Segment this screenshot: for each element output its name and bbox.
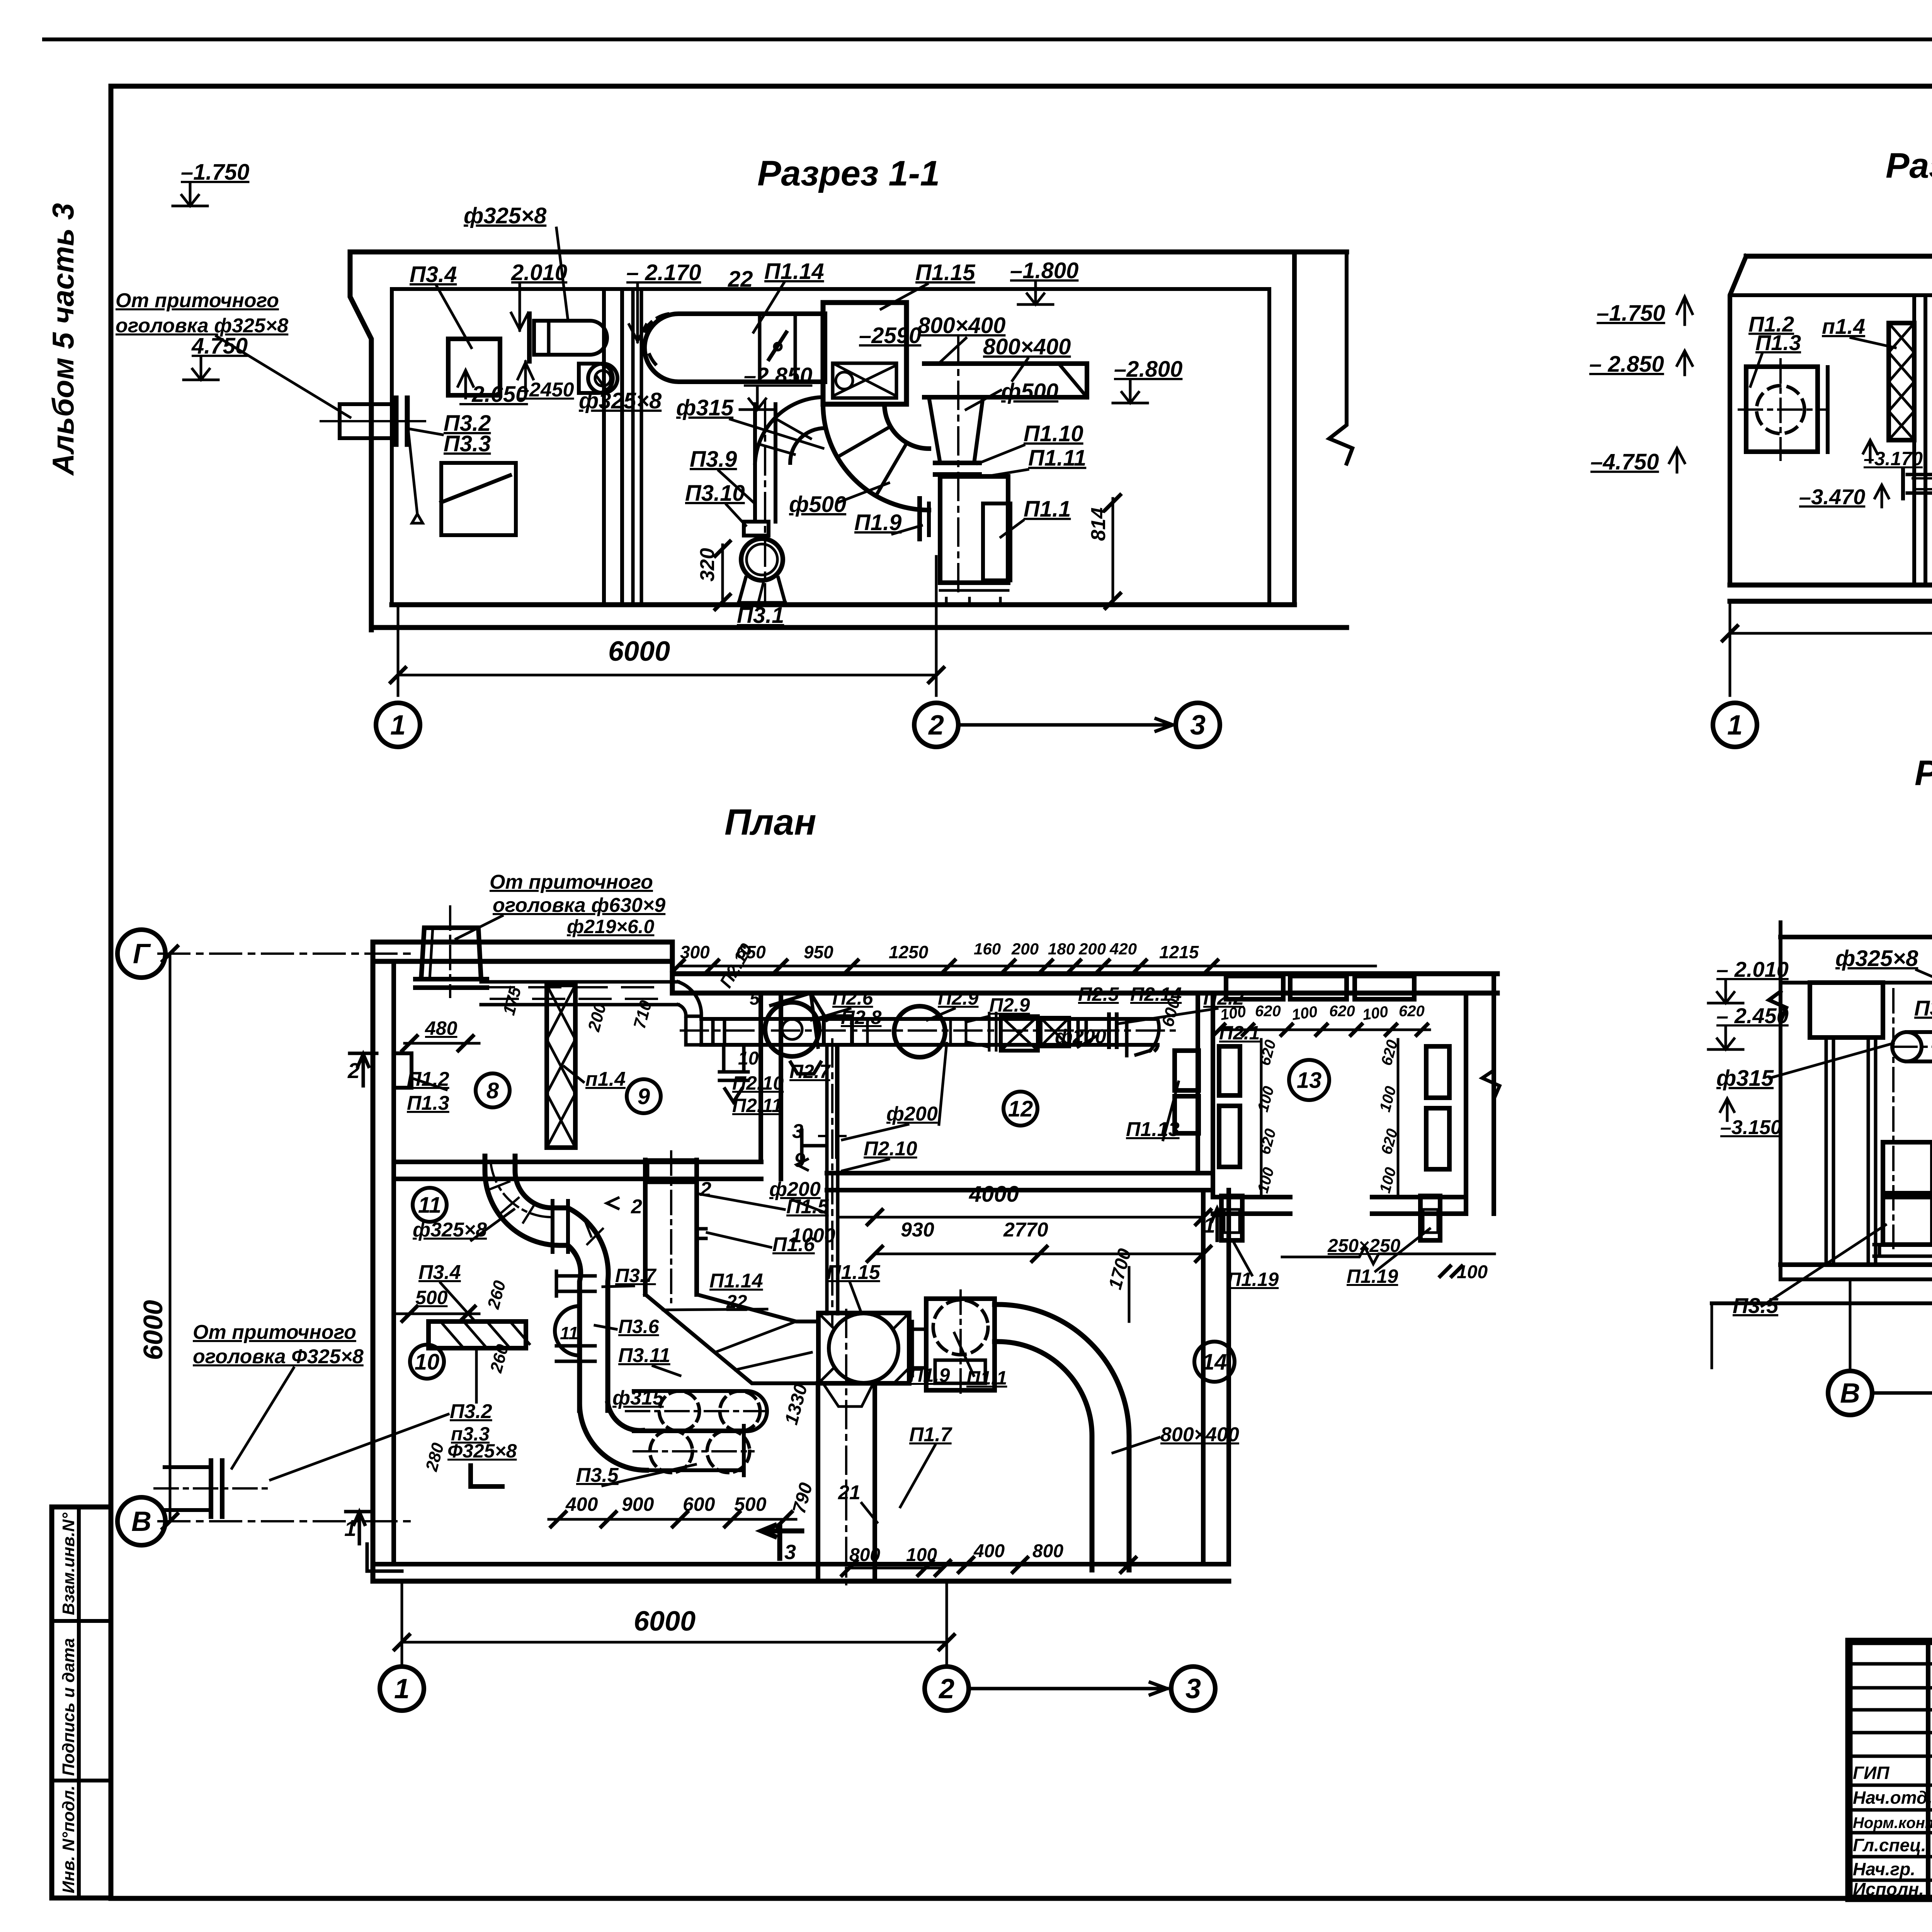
svg-text:200: 200 bbox=[1011, 940, 1039, 958]
chain left transitions bbox=[701, 1019, 724, 1045]
P1.14 gore elbow bbox=[645, 1294, 818, 1383]
svg-text:– 2.450: – 2.450 bbox=[1716, 1003, 1789, 1028]
svg-text:500: 500 bbox=[415, 1287, 448, 1308]
f325 duct stub lower bbox=[579, 364, 613, 393]
svg-text:п1.4: п1.4 bbox=[1822, 314, 1865, 338]
svg-text:П1.9: П1.9 bbox=[854, 510, 901, 535]
P1.1 fan plan bbox=[926, 1299, 995, 1390]
svg-text:11: 11 bbox=[418, 1192, 441, 1218]
svg-text:4000: 4000 bbox=[969, 1182, 1019, 1207]
room 3-3 top slab bbox=[1781, 935, 1932, 939]
grid bubble 1 bbox=[380, 1667, 424, 1711]
svg-text:П3.1: П3.1 bbox=[737, 603, 784, 628]
room 13 break line bottom bbox=[1282, 1247, 1495, 1264]
svg-text:13: 13 bbox=[1297, 1068, 1322, 1093]
wall duct verticals bbox=[631, 289, 635, 603]
svg-text:Взам.инв.N°: Взам.инв.N° bbox=[59, 1513, 78, 1616]
svg-text:800×400: 800×400 bbox=[1160, 1423, 1239, 1446]
svg-text:400: 400 bbox=[973, 1541, 1005, 1561]
P1.15 box bbox=[823, 303, 906, 404]
800x400 duct right bbox=[924, 364, 1087, 397]
svg-text:П3.9: П3.9 bbox=[690, 447, 737, 472]
svg-text:П3.10: П3.10 bbox=[685, 481, 745, 506]
svg-text:1215: 1215 bbox=[1159, 942, 1199, 962]
right wall break bbox=[1482, 1070, 1500, 1099]
grid bubble 3 bbox=[1176, 703, 1220, 747]
svg-text:ф500: ф500 bbox=[789, 492, 846, 517]
svg-text:оголовка ф630×9: оголовка ф630×9 bbox=[493, 894, 665, 917]
plan top wall A bbox=[373, 940, 672, 945]
svg-text:930: 930 bbox=[901, 1219, 934, 1241]
pritochny stub top bbox=[421, 928, 481, 979]
svg-text:Ф325×8: Ф325×8 bbox=[447, 1440, 517, 1462]
P3 second elbow bbox=[568, 1208, 608, 1410]
P1.2 P1.3 fan box bbox=[1746, 367, 1818, 452]
svg-text:Разрез 1-1: Разрез 1-1 bbox=[757, 154, 940, 193]
plan left wall bbox=[371, 942, 376, 1581]
grid bubble 12 bbox=[1003, 1092, 1037, 1126]
svg-text:– 2.010: – 2.010 bbox=[1716, 957, 1789, 981]
svg-text:П3.7: П3.7 bbox=[615, 1265, 657, 1286]
plan interior wall right segment bbox=[827, 1171, 1213, 1175]
svg-text:1: 1 bbox=[394, 1673, 410, 1704]
P1.7 duct down bbox=[816, 1383, 820, 1578]
P2 chain run bbox=[701, 1017, 1158, 1021]
room 1-1 floor bbox=[392, 602, 1294, 607]
svg-text:Разрез 3-3: Разрез 3-3 bbox=[1915, 753, 1932, 793]
grid bubble В bbox=[117, 1497, 165, 1545]
svg-text:ф315: ф315 bbox=[676, 395, 734, 420]
svg-text:10: 10 bbox=[415, 1349, 440, 1374]
grid bubble 8 bbox=[476, 1073, 510, 1107]
plan bottom dim 6000 bbox=[401, 1581, 403, 1667]
svg-text:12: 12 bbox=[1008, 1096, 1033, 1121]
left stack boxes bbox=[1883, 1142, 1932, 1193]
grid bubble 10 bbox=[410, 1345, 444, 1379]
P1.13 boxes room12 bbox=[1175, 1051, 1199, 1090]
corner mark bbox=[471, 1466, 502, 1486]
svg-text:П3.4: П3.4 bbox=[418, 1261, 461, 1284]
svg-text:ф325×8: ф325×8 bbox=[1835, 946, 1918, 971]
room 2-2 floor bbox=[1730, 583, 1932, 588]
f200 riser dashed bbox=[827, 1045, 838, 1314]
P1.14 horizontal duct with round cap bbox=[645, 314, 825, 382]
svg-text:П3.11: П3.11 bbox=[618, 1344, 670, 1367]
room13 left dim col bbox=[1260, 1039, 1263, 1198]
grid bubble Г bbox=[117, 930, 165, 978]
P3 riser duct bbox=[753, 404, 757, 522]
svg-text:Подпись и дата: Подпись и дата bbox=[59, 1638, 78, 1776]
partitions 2-2 bbox=[1912, 295, 1916, 585]
svg-text:П2.10: П2.10 bbox=[864, 1138, 917, 1160]
room 3-3 left wall bbox=[1769, 922, 1786, 1277]
svg-text:П1.1: П1.1 bbox=[1024, 497, 1071, 522]
P1.4 louver bbox=[1889, 323, 1914, 440]
svg-text:–3.170: –3.170 bbox=[1864, 448, 1923, 469]
svg-text:П2.2: П2.2 bbox=[1203, 987, 1244, 1009]
outer trim top line bbox=[44, 37, 1932, 41]
svg-text:П1.3: П1.3 bbox=[407, 1092, 449, 1114]
P3.2 flanged pipe through wall bbox=[340, 404, 396, 438]
centerlines 1-1 bbox=[957, 336, 959, 595]
svg-text:От приточного: От приточного bbox=[490, 871, 653, 893]
svg-text:оголовка Ф325×8: оголовка Ф325×8 bbox=[193, 1345, 364, 1368]
flange joint 2 bbox=[556, 1271, 595, 1296]
svg-text:10: 10 bbox=[738, 1048, 759, 1069]
svg-text:620: 620 bbox=[1399, 1003, 1425, 1020]
svg-text:Нач.отд.: Нач.отд. bbox=[1853, 1787, 1932, 1808]
svg-text:620: 620 bbox=[1255, 1003, 1281, 1020]
grid bubble 1 bbox=[1713, 703, 1757, 747]
room 13 side grilles left bbox=[1219, 1046, 1240, 1095]
chain fittings bbox=[852, 1018, 1001, 1046]
svg-text:Нач.гр.: Нач.гр. bbox=[1853, 1859, 1915, 1879]
svg-text:800×400: 800×400 bbox=[983, 334, 1071, 359]
plan interior wall left segment bbox=[394, 1160, 761, 1164]
svg-text:6000: 6000 bbox=[138, 1300, 168, 1360]
P2.14 bbox=[1041, 1018, 1069, 1046]
P2.5 heater with X bbox=[1001, 1016, 1038, 1051]
svg-text:П2.8: П2.8 bbox=[841, 1007, 882, 1028]
room 13 side grilles right bbox=[1426, 1046, 1449, 1098]
svg-text:П3.11: П3.11 bbox=[1914, 996, 1932, 1020]
fan P1.1 bbox=[940, 476, 1008, 583]
svg-text:– 2.170: – 2.170 bbox=[626, 260, 701, 285]
svg-text:ф200: ф200 bbox=[886, 1103, 938, 1125]
insulated duct f219 low bbox=[1907, 473, 1932, 476]
svg-text:ф315: ф315 bbox=[612, 1387, 664, 1409]
svg-text:П1.19: П1.19 bbox=[1227, 1269, 1279, 1290]
svg-text:14: 14 bbox=[1202, 1349, 1227, 1374]
stamp column boxes bbox=[52, 1507, 111, 1898]
columns under plenum bbox=[1826, 1037, 1876, 1265]
svg-text:ГИП: ГИП bbox=[1853, 1763, 1889, 1783]
svg-text:2770: 2770 bbox=[1003, 1219, 1048, 1241]
svg-text:2: 2 bbox=[700, 1178, 711, 1201]
P2.6 fan circle plan bbox=[765, 1002, 819, 1056]
grid line G bbox=[158, 952, 410, 955]
svg-text:–1.750: –1.750 bbox=[181, 160, 249, 185]
svg-text:От приточного: От приточного bbox=[193, 1321, 356, 1344]
svg-text:П1.6: П1.6 bbox=[772, 1233, 815, 1256]
svg-text:8: 8 bbox=[486, 1078, 499, 1103]
svg-text:Разрез 2-2: Разрез 2-2 bbox=[1886, 146, 1932, 185]
svg-text:6000: 6000 bbox=[608, 636, 670, 667]
svg-text:Г: Г bbox=[133, 939, 151, 969]
svg-text:–3.150: –3.150 bbox=[1720, 1116, 1782, 1139]
svg-text:п1.4: п1.4 bbox=[585, 1068, 626, 1090]
svg-text:5: 5 bbox=[750, 988, 760, 1009]
P3.1 pump bbox=[741, 539, 783, 580]
room 1-1 ceiling bbox=[350, 250, 1347, 255]
svg-text:620: 620 bbox=[1329, 1003, 1355, 1020]
title block outer bbox=[1849, 1641, 1932, 1898]
svg-text:–2.650: –2.650 bbox=[459, 382, 528, 407]
svg-text:П2.9: П2.9 bbox=[938, 987, 979, 1009]
svg-text:180: 180 bbox=[1048, 940, 1075, 958]
svg-text:800: 800 bbox=[1032, 1541, 1063, 1561]
room 2-2 left wall bbox=[1730, 256, 1746, 585]
svg-text:1250: 1250 bbox=[889, 942, 929, 962]
svg-text:П1.15: П1.15 bbox=[827, 1261, 881, 1284]
grid bubble 2 bbox=[925, 1667, 969, 1711]
svg-text:П1.15: П1.15 bbox=[915, 260, 975, 285]
svg-text:900: 900 bbox=[622, 1493, 654, 1515]
svg-text:–2.850: –2.850 bbox=[744, 363, 812, 388]
P3.4 grille plan bbox=[429, 1321, 526, 1348]
room 1-1 right wall bbox=[1267, 289, 1271, 605]
svg-text:21: 21 bbox=[838, 1481, 861, 1504]
svg-text:22: 22 bbox=[726, 1292, 747, 1312]
grid bubble 11 bbox=[413, 1188, 447, 1222]
svg-text:В: В bbox=[131, 1506, 151, 1537]
svg-text:6000: 6000 bbox=[634, 1606, 696, 1637]
P1.2 P1.3 wall bracket bbox=[394, 1053, 412, 1088]
svg-text:Гл.спец.: Гл.спец. bbox=[1853, 1835, 1926, 1855]
svg-text:П2.5: П2.5 bbox=[1078, 983, 1119, 1005]
grid line V bbox=[158, 1520, 417, 1522]
chain branch down P2.10 bbox=[719, 1045, 748, 1102]
grid bubble 3 bbox=[1171, 1667, 1215, 1711]
svg-text:П2.1: П2.1 bbox=[1219, 1022, 1260, 1044]
f500 elbow bbox=[823, 404, 929, 510]
svg-text:– 2.850: – 2.850 bbox=[1589, 352, 1664, 377]
svg-text:2.010: 2.010 bbox=[511, 260, 567, 285]
P3.2 stub pipe left bbox=[165, 1467, 211, 1510]
partition room 12|13 bbox=[1196, 993, 1200, 1173]
P2.8 box bbox=[824, 1016, 852, 1045]
arrow between bubble 2 and 3 bbox=[958, 719, 1173, 731]
funnel transition to fan bbox=[929, 397, 983, 463]
svg-text:–3.470: –3.470 bbox=[1799, 485, 1865, 509]
wall corner mark lower-left bbox=[367, 1544, 402, 1571]
svg-text:П2.10: П2.10 bbox=[732, 1072, 784, 1094]
dim 6000 bottom 1-1 bbox=[397, 605, 400, 696]
svg-text:П2.7: П2.7 bbox=[789, 1061, 831, 1082]
svg-text:ф315: ф315 bbox=[1716, 1066, 1774, 1091]
room 13 right wall bbox=[1464, 993, 1468, 1214]
svg-text:П1.19: П1.19 bbox=[1347, 1265, 1398, 1287]
dim 6000 2-2 bbox=[1729, 601, 1731, 696]
svg-text:3: 3 bbox=[1190, 710, 1206, 741]
ceiling plenum left bbox=[1810, 983, 1883, 1037]
svg-text:П1.11: П1.11 bbox=[1028, 446, 1086, 471]
800x400 big elbow bbox=[995, 1304, 1129, 1570]
svg-text:814: 814 bbox=[1087, 507, 1110, 541]
P2.9 fan circle plan bbox=[894, 1006, 945, 1057]
plan bottom wall bbox=[373, 1562, 1229, 1566]
svg-text:П1.3: П1.3 bbox=[1755, 330, 1801, 355]
f315 duct stadium bbox=[634, 1391, 767, 1431]
svg-text:2: 2 bbox=[928, 710, 944, 741]
room13 right dim col bbox=[1397, 1039, 1400, 1198]
plan top wall B bbox=[672, 971, 1497, 976]
partition room 9|12 bbox=[759, 993, 763, 1162]
room 13 bottom wall bbox=[1213, 1195, 1290, 1199]
svg-text:П3.4: П3.4 bbox=[410, 262, 457, 287]
P2.2 flange bbox=[1109, 1014, 1117, 1047]
semicircle fitting 11 bbox=[555, 1306, 580, 1355]
svg-text:100: 100 bbox=[1361, 1003, 1389, 1024]
P1.9 flange bbox=[909, 1321, 926, 1376]
svg-text:–4.750: –4.750 bbox=[1590, 449, 1659, 474]
grid bubble 13 bbox=[1289, 1060, 1329, 1100]
P1.15 box plan bbox=[818, 1313, 909, 1383]
svg-text:3: 3 bbox=[784, 1541, 796, 1564]
svg-text:П3.5: П3.5 bbox=[1733, 1293, 1779, 1318]
duct from stub dashed bbox=[481, 980, 678, 984]
svg-text:1: 1 bbox=[1727, 710, 1743, 741]
svg-text:От приточного: От приточного bbox=[116, 289, 279, 312]
svg-text:2: 2 bbox=[938, 1673, 954, 1704]
svg-text:ф325×8: ф325×8 bbox=[464, 203, 547, 228]
grid bubble В bbox=[1828, 1371, 1872, 1415]
interior column 1-1 bbox=[602, 289, 606, 605]
room 1-1 left wall bbox=[350, 252, 371, 630]
svg-text:11: 11 bbox=[560, 1323, 578, 1343]
svg-text:–2590: –2590 bbox=[859, 323, 921, 348]
svg-text:9: 9 bbox=[638, 1084, 650, 1109]
svg-text:П1.9: П1.9 bbox=[909, 1364, 950, 1386]
f315 riser elbow bbox=[755, 397, 825, 463]
svg-text:П1.7: П1.7 bbox=[909, 1423, 952, 1446]
svg-text:Альбом 5 часть 3: Альбом 5 часть 3 bbox=[46, 203, 80, 476]
room 13 top grilles bbox=[1226, 976, 1283, 999]
svg-text:Норм.конт: Норм.конт bbox=[1853, 1815, 1932, 1832]
svg-text:П1.10: П1.10 bbox=[1024, 421, 1083, 446]
svg-text:1: 1 bbox=[390, 710, 406, 741]
svg-text:400: 400 bbox=[565, 1493, 598, 1515]
svg-text:Исполн.: Исполн. bbox=[1853, 1879, 1924, 1899]
svg-text:ф219×6.0: ф219×6.0 bbox=[567, 916, 655, 937]
svg-text:320: 320 bbox=[696, 548, 719, 582]
svg-text:П1.14: П1.14 bbox=[709, 1270, 763, 1292]
P3 upper elbow bbox=[485, 1156, 566, 1245]
svg-text:П2.11: П2.11 bbox=[732, 1095, 782, 1116]
top dim row bbox=[678, 965, 1376, 968]
title block signature table verticals bbox=[1926, 1641, 1930, 1898]
vertical centerlines 3-3 bbox=[1892, 989, 1895, 1248]
svg-text:План: План bbox=[724, 802, 816, 843]
grid bubble 14 bbox=[1194, 1342, 1235, 1382]
svg-text:–2.800: –2.800 bbox=[1114, 357, 1182, 382]
svg-text:ф500: ф500 bbox=[1001, 379, 1058, 404]
P1.5 P1.6 vertical duct bbox=[643, 1160, 648, 1294]
svg-text:100: 100 bbox=[1291, 1003, 1318, 1024]
P3.3 panel bbox=[441, 463, 516, 535]
svg-text:950: 950 bbox=[804, 942, 833, 962]
svg-text:–1.750: –1.750 bbox=[1597, 301, 1665, 326]
f325 duct stub upper bbox=[534, 321, 607, 355]
grid bubble 1 bbox=[376, 703, 420, 747]
flange joint 1 bbox=[553, 1201, 568, 1252]
svg-text:3: 3 bbox=[1185, 1673, 1201, 1704]
svg-text:22: 22 bbox=[728, 267, 753, 292]
left vertical dim 6000 bbox=[169, 954, 172, 1521]
svg-text:П2.9: П2.9 bbox=[989, 994, 1030, 1016]
room 14 right wall bbox=[1201, 1190, 1206, 1564]
room 2-2 ceiling bbox=[1746, 254, 1932, 259]
svg-text:П2.6: П2.6 bbox=[832, 987, 874, 1009]
svg-text:300: 300 bbox=[680, 942, 710, 962]
svg-text:П1.14: П1.14 bbox=[764, 259, 824, 284]
svg-text:200: 200 bbox=[1078, 940, 1106, 958]
svg-text:П3.6: П3.6 bbox=[618, 1316, 660, 1337]
P3.4 box bbox=[448, 339, 500, 395]
P1.19 boxes bbox=[1221, 1196, 1242, 1240]
P2 chain start elbow bbox=[678, 982, 701, 1045]
svg-text:420: 420 bbox=[1109, 940, 1137, 958]
svg-text:П3.3: П3.3 bbox=[444, 431, 491, 456]
svg-text:250×250: 250×250 bbox=[1327, 1236, 1401, 1256]
svg-text:ф325×8: ф325×8 bbox=[579, 388, 662, 413]
room 3-3 floor bbox=[1781, 1262, 1932, 1267]
horizontal duct with round end bbox=[1892, 1032, 1922, 1061]
svg-text:П1.13: П1.13 bbox=[1126, 1118, 1180, 1141]
title block signature rows lower bbox=[1849, 1784, 1932, 1787]
svg-text:П1.5: П1.5 bbox=[786, 1196, 829, 1218]
svg-text:оголовка ф325×8: оголовка ф325×8 bbox=[116, 315, 288, 337]
P3.5 silencer duct bbox=[643, 1429, 744, 1432]
svg-text:480: 480 bbox=[425, 1017, 457, 1039]
svg-text:160: 160 bbox=[974, 940, 1001, 958]
svg-text:П3.2: П3.2 bbox=[450, 1400, 492, 1423]
grid bubble 9 bbox=[627, 1079, 661, 1113]
grid bubble 2 bbox=[914, 703, 958, 747]
P3 third elbow bbox=[580, 1403, 646, 1470]
title block signature rows upper bbox=[1849, 1662, 1932, 1666]
svg-text:–1.800: –1.800 bbox=[1010, 258, 1078, 283]
svg-text:В: В bbox=[1840, 1378, 1860, 1409]
P1.4 louver plan bbox=[547, 985, 575, 1148]
svg-text:2: 2 bbox=[631, 1196, 642, 1218]
svg-text:Инв. N°подл.: Инв. N°подл. bbox=[59, 1786, 78, 1893]
room13 top dim row bbox=[1219, 1029, 1430, 1031]
